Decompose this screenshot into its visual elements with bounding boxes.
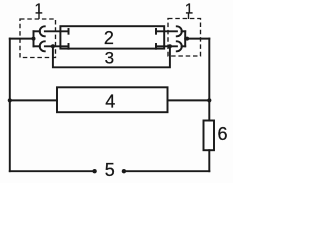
svg-text:1: 1: [185, 1, 193, 18]
svg-text:1: 1: [35, 1, 43, 18]
svg-text:5: 5: [105, 160, 115, 180]
svg-text:4: 4: [105, 91, 115, 111]
svg-text:2: 2: [104, 28, 114, 48]
svg-text:3: 3: [105, 48, 114, 67]
svg-text:6: 6: [217, 124, 227, 144]
